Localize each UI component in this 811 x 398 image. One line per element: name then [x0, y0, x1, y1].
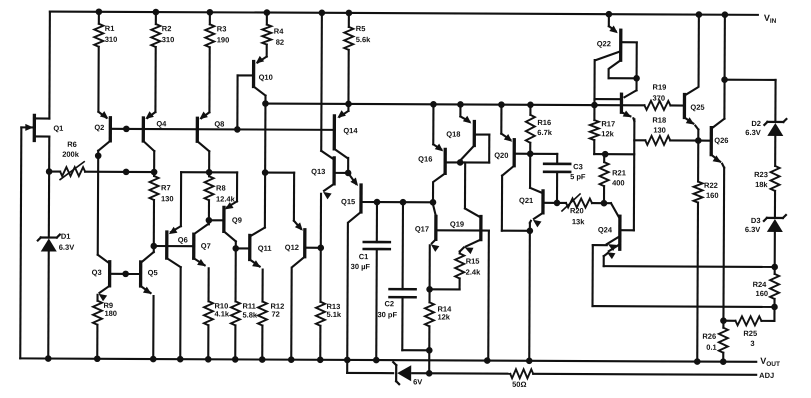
svg-text:Q8: Q8 [214, 120, 224, 129]
svg-text:160: 160 [706, 191, 719, 200]
svg-text:R6: R6 [67, 140, 77, 149]
svg-text:R20: R20 [570, 206, 584, 215]
svg-text:Q22: Q22 [597, 39, 611, 48]
svg-text:R26: R26 [702, 332, 716, 341]
svg-text:Q17: Q17 [415, 224, 429, 233]
svg-text:30 pF: 30 pF [377, 310, 397, 319]
svg-text:6V: 6V [413, 377, 422, 386]
svg-text:370: 370 [652, 94, 665, 103]
svg-text:Q21: Q21 [519, 196, 533, 205]
svg-text:160: 160 [756, 289, 769, 298]
svg-text:6.3V: 6.3V [59, 243, 74, 252]
svg-text:R22: R22 [704, 181, 718, 190]
svg-text:R3: R3 [217, 24, 227, 33]
svg-text:4.1k: 4.1k [214, 309, 229, 318]
svg-text:Q6: Q6 [178, 235, 188, 244]
svg-text:R23: R23 [754, 170, 768, 179]
svg-text:R17: R17 [601, 119, 615, 128]
svg-text:5 pF: 5 pF [570, 172, 586, 181]
svg-text:50Ω: 50Ω [512, 380, 526, 389]
svg-text:C3: C3 [573, 162, 583, 171]
svg-text:Q7: Q7 [201, 241, 211, 250]
svg-text:R21: R21 [612, 168, 626, 177]
svg-text:C1: C1 [359, 252, 369, 261]
svg-text:5.1k: 5.1k [326, 310, 341, 319]
svg-text:ADJ: ADJ [759, 371, 774, 380]
svg-text:Q3: Q3 [92, 268, 102, 277]
svg-text:12k: 12k [437, 312, 450, 321]
svg-text:3: 3 [750, 339, 754, 348]
svg-text:Q24: Q24 [598, 225, 613, 234]
svg-text:6.3V: 6.3V [745, 128, 760, 137]
svg-text:130: 130 [653, 126, 666, 135]
svg-text:R7: R7 [161, 183, 171, 192]
svg-text:190: 190 [217, 35, 230, 44]
svg-text:0.1: 0.1 [706, 343, 716, 352]
svg-text:72: 72 [271, 310, 279, 319]
svg-text:2.4k: 2.4k [466, 268, 481, 277]
svg-text:Q2: Q2 [94, 123, 104, 132]
svg-text:18k: 18k [755, 180, 768, 189]
svg-text:VIN: VIN [764, 13, 777, 25]
svg-text:180: 180 [104, 309, 117, 318]
svg-text:R1: R1 [105, 24, 115, 33]
svg-text:Q4: Q4 [156, 119, 167, 128]
svg-text:Q16: Q16 [418, 154, 432, 163]
svg-text:310: 310 [162, 35, 175, 44]
svg-text:R24: R24 [753, 280, 768, 289]
svg-text:D3: D3 [751, 216, 761, 225]
svg-text:R4: R4 [274, 27, 284, 36]
svg-text:R5: R5 [356, 24, 366, 33]
svg-text:R2: R2 [162, 24, 172, 33]
svg-text:400: 400 [612, 178, 625, 187]
svg-text:5.6k: 5.6k [356, 35, 371, 44]
svg-text:VOUT: VOUT [760, 356, 780, 368]
svg-text:Q19: Q19 [450, 220, 464, 229]
svg-text:13k: 13k [572, 217, 585, 226]
svg-text:R15: R15 [466, 257, 480, 266]
svg-text:130: 130 [161, 194, 174, 203]
svg-text:12k: 12k [601, 129, 614, 138]
svg-text:200k: 200k [62, 150, 80, 159]
svg-text:R18: R18 [652, 116, 666, 125]
svg-text:Q9: Q9 [232, 216, 242, 225]
svg-text:6.3V: 6.3V [745, 225, 760, 234]
svg-text:Q20: Q20 [494, 151, 508, 160]
svg-text:Q15: Q15 [341, 197, 355, 206]
svg-text:Q14: Q14 [343, 126, 358, 135]
svg-text:R19: R19 [653, 83, 667, 92]
svg-text:D2: D2 [751, 119, 761, 128]
svg-text:Q5: Q5 [148, 268, 158, 277]
svg-text:6.7k: 6.7k [537, 128, 552, 137]
svg-text:Q1: Q1 [53, 124, 63, 133]
svg-text:Q10: Q10 [259, 73, 273, 82]
svg-text:Q25: Q25 [690, 103, 704, 112]
svg-text:Q13: Q13 [311, 167, 325, 176]
svg-text:82: 82 [276, 38, 284, 47]
svg-text:12.4k: 12.4k [216, 195, 236, 204]
svg-text:310: 310 [105, 35, 118, 44]
svg-text:C2: C2 [384, 299, 394, 308]
svg-text:Q18: Q18 [446, 130, 460, 139]
svg-text:R16: R16 [537, 118, 551, 127]
svg-text:Q26: Q26 [714, 136, 728, 145]
svg-text:Q11: Q11 [258, 244, 272, 253]
svg-text:5.8k: 5.8k [242, 311, 257, 320]
svg-text:R25: R25 [743, 329, 757, 338]
svg-text:D1: D1 [61, 232, 71, 241]
svg-text:R8: R8 [216, 184, 226, 193]
svg-text:30 µF: 30 µF [351, 262, 371, 271]
svg-text:Q12: Q12 [285, 243, 299, 252]
svg-text:R11: R11 [242, 302, 255, 311]
